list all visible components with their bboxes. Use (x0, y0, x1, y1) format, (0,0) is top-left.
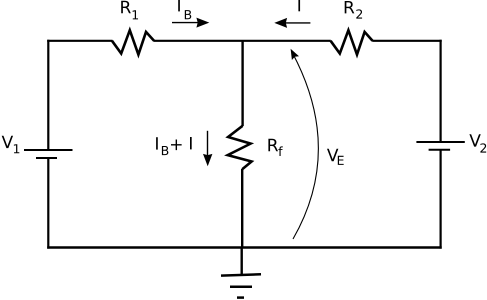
label V1 (2, 136, 20, 154)
label IB (top) (178, 0, 191, 19)
wire left vertical lower (47, 158, 49, 249)
current arrow IB (pointing right) (172, 18, 209, 28)
battery V1 (24, 150, 73, 158)
current arrow IB+I (pointing down) (203, 131, 212, 167)
current arrow I (pointing left) (274, 18, 310, 28)
label R1 (121, 1, 138, 20)
wire top-left horizontal segment (47, 40, 112, 42)
wire top-right horizontal segment (372, 40, 442, 42)
label Rf (268, 139, 282, 156)
wire left vertical upper (47, 40, 49, 150)
label R2 (345, 1, 362, 19)
wire right vertical lower (440, 150, 442, 249)
voltage annotation arc VE (291, 49, 319, 239)
wire middle vertical lower (241, 169, 243, 248)
wire middle vertical upper (241, 41, 243, 126)
label IB+I (middle) (156, 137, 192, 155)
label V2 (469, 134, 486, 152)
resistor Rf (228, 126, 252, 169)
label VE (327, 149, 344, 165)
wire right vertical upper (440, 40, 442, 142)
resistor R2 (331, 30, 373, 54)
wire top-middle horizontal segment (154, 40, 331, 42)
ground (221, 248, 261, 298)
label I (top) (298, 0, 300, 11)
battery V2 (416, 142, 464, 150)
resistor R1 (112, 30, 154, 54)
wire bottom horizontal (47, 246, 442, 249)
